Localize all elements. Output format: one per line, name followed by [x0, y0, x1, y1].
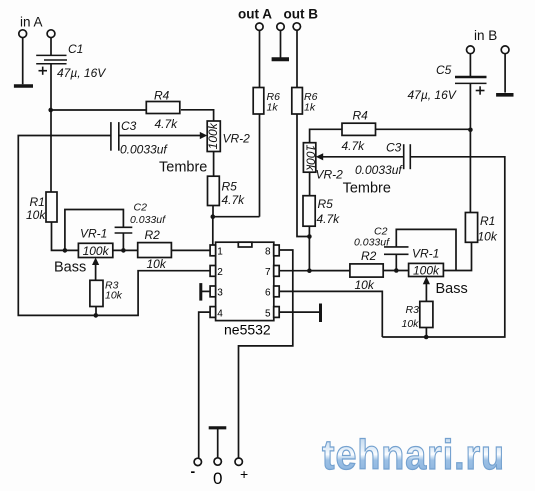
- potentiometer VR-1 (right) body: [409, 263, 444, 276]
- VR-1 right wiper arrow: [423, 277, 430, 302]
- capacitor C5 47u 16V: [455, 77, 487, 83]
- wire R6 right down to node B2: [297, 114, 309, 237]
- svg-text:100k: 100k: [206, 122, 220, 149]
- terminal out A: [256, 23, 263, 30]
- terminal in B (signal pin): [467, 46, 475, 54]
- wire left loop pin2 to C3: [18, 136, 210, 316]
- svg-text:tehnari.ru: tehnari.ru: [322, 431, 505, 478]
- node B2 junction dot: [307, 234, 312, 239]
- wire node A2 to R4 right: [376, 128, 471, 130]
- node C1L junction dot: [63, 248, 68, 253]
- wire R6 to out A: [259, 31, 261, 88]
- wire node A1 to R4: [51, 109, 147, 111]
- svg-text:Tembre: Tembre: [343, 181, 391, 197]
- node A2 junction dot: [468, 128, 473, 133]
- C1 polarity plus sign: [39, 67, 48, 75]
- wire R4 right to VR-2 right top: [310, 129, 342, 142]
- wire R3 to bottom rail: [95, 307, 97, 316]
- pin 4 pad: [210, 307, 216, 318]
- C5 polarity plus sign: [476, 86, 485, 94]
- wire C1 to node A1: [50, 64, 52, 110]
- resistor R4 (left): [146, 102, 180, 114]
- svg-text:in A: in A: [20, 15, 43, 30]
- wire VR-2 bottom to R5: [213, 152, 215, 177]
- svg-text:100k: 100k: [413, 264, 440, 278]
- ground (under in A): [14, 84, 33, 88]
- VR-1 left wiper arrow: [92, 258, 99, 281]
- wire node B2 to node F2: [308, 237, 310, 271]
- pin 6 pad: [274, 286, 280, 297]
- resistor R5 (right): [303, 196, 315, 227]
- svg-text:0.033uf: 0.033uf: [130, 214, 166, 226]
- terminal middle ground pin: [277, 23, 284, 30]
- svg-text:in B: in B: [474, 28, 497, 43]
- pin 7 pad: [274, 266, 280, 277]
- pin 8 pad: [274, 245, 280, 256]
- wire in A left pin to ground: [22, 38, 24, 85]
- svg-text:1k: 1k: [304, 102, 316, 114]
- node B1 junction dot: [211, 214, 216, 219]
- svg-text:0.0033uf: 0.0033uf: [120, 143, 168, 157]
- wire in B right pin to ground: [504, 54, 506, 93]
- wire C2 loop (right): [396, 229, 456, 270]
- svg-text:R2: R2: [361, 249, 377, 263]
- svg-text:R4: R4: [353, 109, 369, 123]
- wire R1 to VR-1 left terminal: [52, 222, 79, 250]
- pin 5 pad: [274, 307, 280, 318]
- wire out B to R6 (right): [296, 30, 298, 87]
- svg-text:10k: 10k: [147, 257, 167, 271]
- svg-text:7: 7: [265, 267, 271, 278]
- wire node B1 to feedback riser: [213, 216, 260, 218]
- svg-text:10k: 10k: [478, 230, 498, 244]
- wire pin 4 to minus terminal: [199, 312, 210, 458]
- pin 1 pad: [210, 245, 216, 256]
- wire in A to C1: [50, 38, 52, 56]
- terminal in A (left pin): [19, 30, 27, 38]
- wire right bottom rail: [382, 157, 505, 337]
- pin 3 ground bar: [201, 283, 210, 301]
- wire pin 6 to right loop: [279, 291, 382, 337]
- terminal in A (signal pin): [47, 30, 55, 38]
- svg-text:R5: R5: [318, 197, 334, 211]
- wire feedback riser to R6 (left): [259, 114, 261, 217]
- wire node A1 to R1 (left): [50, 110, 52, 192]
- wire node F2 to R2 right: [309, 270, 350, 272]
- node D2 junction dot: [394, 268, 399, 273]
- wire C5 to R1 right: [469, 83, 471, 212]
- svg-text:0: 0: [213, 469, 222, 488]
- wire C3 to VR-2 wiper arrow: [119, 132, 207, 139]
- capacitor C2 (right) plates: [384, 247, 409, 254]
- resistor R1 (left): [46, 192, 57, 222]
- svg-text:Tembre: Tembre: [159, 160, 207, 176]
- svg-text:4.7k: 4.7k: [317, 212, 341, 226]
- wire C2 to node D1: [122, 233, 124, 250]
- power common tee: [209, 428, 227, 458]
- svg-text:R2: R2: [145, 228, 161, 242]
- svg-text:C3: C3: [121, 119, 137, 133]
- wire C3 right to VR-2 wiper arrow: [316, 153, 404, 160]
- wire middle pin to ground: [280, 30, 282, 57]
- pin 5 ground bar: [279, 304, 320, 323]
- wire C2 right lower lead: [395, 254, 397, 270]
- svg-text:C2: C2: [134, 202, 148, 214]
- wire R5 right to node B2: [308, 226, 310, 236]
- node A1 junction dot: [48, 108, 53, 113]
- svg-text:R1: R1: [480, 214, 495, 228]
- node D1 junction dot: [121, 248, 126, 253]
- wire pin 8 to plus terminal: [239, 250, 293, 458]
- potentiometer VR-2 (right) body: [303, 143, 315, 173]
- potentiometer VR-1 (left) body: [78, 243, 112, 257]
- wire VR-1 to R2: [113, 249, 138, 251]
- resistor R1 (right): [465, 213, 477, 243]
- svg-text:R1: R1: [30, 195, 45, 209]
- svg-text:10k: 10k: [402, 318, 420, 330]
- wire R2 right to VR-1 right: [383, 270, 408, 272]
- wire R3 right to bottom rail: [425, 328, 427, 338]
- svg-text:Bass: Bass: [436, 281, 468, 297]
- svg-text:VR-2: VR-2: [316, 168, 344, 182]
- svg-text:47µ, 16V: 47µ, 16V: [408, 88, 457, 102]
- svg-text:R4: R4: [154, 89, 170, 103]
- svg-text:1k: 1k: [267, 102, 279, 114]
- svg-text:C5: C5: [436, 63, 452, 77]
- ground (output common): [272, 57, 289, 61]
- wire node B1 down to pin 1: [212, 217, 214, 246]
- wire R4 to VR-2 top: [181, 110, 214, 121]
- wire R5 to node B1: [212, 206, 214, 217]
- capacitor C3 (left) plates: [111, 122, 119, 151]
- svg-text:1: 1: [217, 247, 223, 258]
- terminal zero: [214, 458, 221, 465]
- resistor R3 (right): [420, 301, 433, 327]
- resistor R5 (left): [208, 176, 220, 205]
- terminal in B (right pin): [501, 46, 509, 54]
- resistor R2 (left): [138, 243, 172, 258]
- svg-text:out A: out A: [238, 7, 272, 22]
- svg-text:0.033uf: 0.033uf: [354, 237, 390, 249]
- resistor R4 (right): [342, 123, 376, 135]
- pin 2 pad: [210, 266, 216, 277]
- svg-text:10k: 10k: [355, 278, 375, 292]
- terminal minus: [194, 458, 201, 465]
- wire pin 7 to node F2: [279, 270, 309, 272]
- svg-text:10k: 10k: [105, 290, 123, 302]
- svg-text:VR-2: VR-2: [223, 132, 251, 146]
- resistor R3 (left): [90, 280, 103, 306]
- svg-text:8: 8: [265, 247, 271, 258]
- potentiometer VR-2 (left) body: [207, 121, 220, 152]
- svg-text:ne5532: ne5532: [224, 322, 271, 338]
- svg-text:6: 6: [265, 288, 271, 299]
- capacitor C1 47u 16V: [36, 55, 67, 63]
- svg-text:5: 5: [265, 308, 271, 319]
- node E1 junction dot: [94, 313, 99, 318]
- capacitor C2 (left) plates: [115, 227, 133, 233]
- resistor R6 (left): [253, 88, 264, 115]
- svg-text:R3: R3: [406, 304, 420, 316]
- wire R1 right to VR-1 right: [443, 242, 471, 270]
- svg-text:4.7k: 4.7k: [222, 193, 246, 207]
- node G2 junction dot: [424, 335, 429, 340]
- svg-text:C3: C3: [386, 141, 402, 155]
- svg-text:47µ, 16V: 47µ, 16V: [57, 66, 106, 80]
- svg-text:10k: 10k: [26, 208, 46, 222]
- svg-text:100k: 100k: [83, 244, 110, 258]
- resistor R2 (right): [350, 264, 383, 277]
- svg-text:+: +: [240, 466, 248, 482]
- svg-text:VR-1: VR-1: [80, 227, 107, 241]
- wire VR-2 right bottom to R5 right: [309, 172, 311, 196]
- svg-text:0.0033uf: 0.0033uf: [355, 163, 403, 177]
- svg-text:C1: C1: [68, 42, 83, 56]
- ground (under in B): [496, 93, 513, 97]
- capacitor C3 (right) plates: [404, 144, 411, 169]
- wire in B to C5: [469, 54, 471, 76]
- svg-text:2: 2: [217, 267, 223, 278]
- resistor R6 (right): [292, 88, 303, 115]
- svg-text:4: 4: [217, 308, 223, 319]
- svg-text:-: -: [191, 463, 196, 479]
- svg-text:4.7k: 4.7k: [155, 117, 179, 131]
- svg-text:VR-1: VR-1: [412, 247, 439, 261]
- IC notch: [238, 242, 252, 247]
- svg-text:out B: out B: [284, 7, 319, 22]
- svg-text:Bass: Bass: [54, 260, 86, 276]
- terminal out B: [293, 23, 300, 30]
- wire R2 to pin 1: [171, 249, 210, 251]
- IC U1 ne5532 body: [216, 242, 274, 320]
- wire C2 loop (left): [65, 210, 124, 251]
- svg-text:R5: R5: [222, 180, 238, 194]
- pin 3 pad: [210, 286, 216, 297]
- node F2 junction dot: [307, 268, 312, 273]
- svg-text:4.7k: 4.7k: [342, 139, 366, 153]
- svg-text:3: 3: [217, 288, 223, 299]
- terminal plus: [235, 458, 242, 465]
